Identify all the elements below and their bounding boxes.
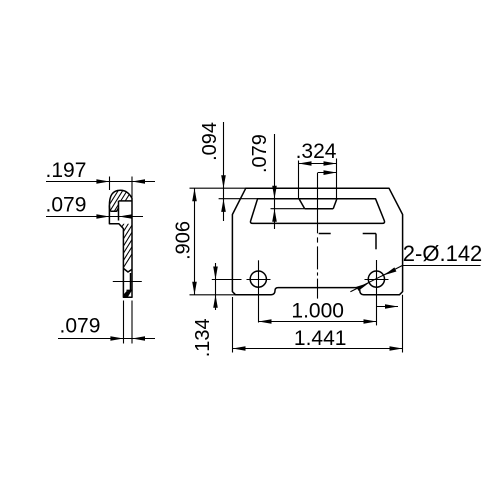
hook trapezoid bottom edge (305, 208, 334, 210)
arrow .197 left (96, 179, 109, 184)
dim line .079 front (274, 134, 276, 229)
hook trapezoid left diagonal (299, 199, 305, 209)
bottom edge extension left (190, 294, 236, 296)
arrow .079B left (110, 336, 123, 341)
bottom extension line right (131, 301, 133, 344)
arrow .906 top (192, 188, 197, 201)
arrow on centerline segment (324, 170, 337, 175)
leader 2-dia.142 diagonal (350, 265, 402, 291)
wall hatching (116, 208, 134, 280)
bottom extension line left (123, 301, 125, 344)
arrow .197 right (132, 179, 145, 184)
centerline top arrow segment (318, 172, 337, 174)
svg-text:.079: .079 (60, 315, 101, 338)
front view outline (232, 188, 402, 295)
svg-text:.079: .079 (46, 194, 87, 217)
arrow .079F lower (points up to hook bottom) (272, 209, 277, 222)
svg-text:.324: .324 (296, 140, 337, 163)
slot top extension left (.094/.079) (219, 198, 258, 200)
hook bottom extension left (.079) (271, 208, 305, 210)
hidden feature corner horizontal (363, 233, 376, 235)
arrow 1.441 right (390, 346, 403, 351)
dim line .079 bottom (58, 338, 155, 340)
hole left horizontal crosshair (247, 279, 271, 281)
arrow .094 lower (points up to slot top) (221, 199, 226, 212)
hole centerline (left view) (113, 281, 142, 283)
extension line 1.441 right (402, 295, 404, 353)
top edge extension left (.906/.094) (190, 187, 246, 189)
arrow 1.441 left (233, 346, 246, 351)
dim line .324 (299, 163, 337, 165)
leader arrow lower-left (tip on circle) (356, 283, 369, 291)
arrow .134 upper (points down to hole centerline) (213, 267, 218, 280)
arrow .079B right (132, 336, 145, 341)
extension line .324 left (298, 161, 300, 199)
foot hatching (118, 274, 134, 312)
svg-text:1.000: 1.000 (291, 300, 344, 323)
hole left vertical crosshair/extension (258, 260, 260, 322)
leader arrow upper-right (tip on circle) (384, 267, 397, 275)
dim line .134 (215, 263, 217, 310)
dim line .197 (46, 181, 155, 183)
bead hatching (105, 157, 135, 234)
extension line right (.197) (131, 177, 133, 198)
slot outline (250, 199, 384, 224)
arrow .094 upper (points down to top edge) (221, 175, 226, 188)
vertical centerline segments (317, 173, 319, 299)
svg-text:.079: .079 (249, 134, 271, 173)
arrow .079F upper (points down to slot top) (272, 186, 277, 199)
arrow .324 right (324, 161, 337, 166)
hole right horizontal crosshair (365, 279, 389, 281)
bead underside edge (109, 206, 118, 212)
hole right vertical crosshair/extension (376, 260, 378, 325)
hidden feature segment near centerline (319, 233, 331, 235)
hole section boundary V (123, 268, 132, 272)
arrow 1.000 left (259, 319, 272, 324)
extension line .324 right (336, 159, 338, 199)
hole left circle (250, 271, 266, 287)
hook trapezoid right diagonal (333, 199, 337, 209)
svg-text:.197: .197 (46, 159, 87, 182)
hidden feature corner vertical (375, 234, 377, 250)
arrow 1.000 right (364, 319, 377, 324)
dim line 1.000 (259, 321, 377, 323)
bead notch vertical edge / extension (118, 201, 120, 221)
hole bottom horizontal (127, 289, 133, 291)
left view part outline (109, 190, 132, 297)
unlabeled arrow segment right of hole (377, 306, 399, 308)
arrow .906 bottom (192, 282, 197, 295)
svg-text:.906: .906 (172, 221, 194, 260)
bead notch horizontal edge (119, 200, 132, 202)
svg-text:.134: .134 (192, 318, 214, 357)
svg-text:.094: .094 (199, 122, 221, 161)
svg-text:1.441: 1.441 (294, 327, 347, 350)
arrow .079L right (119, 214, 132, 219)
arrow .079L left (96, 214, 109, 219)
dim line .906 (194, 188, 196, 295)
hole right circle (368, 271, 384, 287)
svg-text:2-Ø.142: 2-Ø.142 (403, 241, 483, 266)
dim line 1.441 (233, 348, 403, 350)
leader underline (403, 265, 481, 267)
hole back wall vertical (130, 273, 132, 290)
extension line 1.441 left (232, 297, 234, 353)
extension line .134 hole center left (212, 279, 242, 281)
arrow .324 left (299, 161, 312, 166)
extension line left (.197) (109, 177, 111, 191)
dim line .094 (223, 122, 225, 221)
arrow right of hole (385, 304, 398, 309)
foot diagonal (123, 291, 127, 296)
dim line .079 upper left (46, 216, 143, 218)
arrow .134 lower (points up to bottom) (213, 295, 218, 308)
